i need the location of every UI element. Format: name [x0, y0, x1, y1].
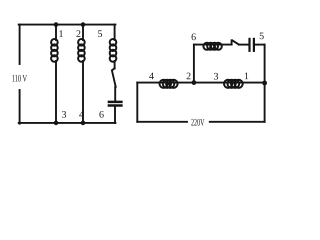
svg-text:4: 4 [79, 110, 84, 121]
svg-text:6: 6 [99, 110, 104, 121]
svg-text:3: 3 [61, 110, 66, 121]
wire top branch right segment [254, 44, 265, 46]
svg-text:2: 2 [76, 29, 81, 40]
svg-text:220V: 220V [191, 117, 205, 128]
wire bottom bus left segment (220V source lead) [137, 121, 187, 123]
node junction dot top of branch 1 [54, 22, 59, 27]
wire top bus of left circuit [19, 24, 116, 26]
wire bottom bus right segment (220V source lead) [210, 121, 265, 123]
inductor winding 4-2 (series coil left) [160, 80, 178, 88]
wire branch 2 lower lead [82, 61, 84, 123]
inductor winding 5-6 (right branch coil) [110, 39, 117, 62]
switch S1 (knife switch in branch 5) [112, 68, 116, 87]
svg-text:5: 5 [259, 31, 264, 42]
wire branch 1 upper lead [55, 25, 57, 40]
node junction dot top of branch 2 [81, 22, 86, 27]
wire branch 2 upper lead [82, 25, 84, 40]
node junction dot bottom of branch 1 [54, 121, 59, 126]
wire between switch and capacitor C1 [114, 87, 116, 101]
svg-text:3: 3 [213, 71, 218, 82]
svg-text:5: 5 [97, 29, 102, 40]
capacitor C2 (vertical plates) [250, 39, 254, 51]
svg-text:4: 4 [149, 71, 154, 82]
wire top branch left segment [194, 44, 232, 46]
wire between switch S2 and capacitor C2 [239, 44, 248, 46]
wire capacitor C1 lower lead [114, 106, 116, 123]
capacitor C1 (horizontal plates) [109, 102, 122, 106]
inductor winding 6-5 (top branch coil) [203, 43, 221, 50]
wire branch 5 upper lead [114, 25, 116, 40]
svg-text:1: 1 [244, 71, 249, 82]
wire branch 1 lower lead [55, 61, 57, 123]
inductor winding 1-3 (left branch coil) [51, 39, 58, 62]
node 2 junction dot (right circuit) [192, 80, 197, 85]
wire left side lower segment (110V source lead) [19, 90, 21, 124]
svg-text:6: 6 [191, 32, 196, 43]
wire between coil 5 and switch [114, 61, 116, 68]
wire bottom bus of left circuit [19, 122, 116, 124]
svg-text:1: 1 [58, 29, 63, 40]
inductor winding 3-1 (series coil right) [224, 80, 243, 88]
svg-text:2: 2 [186, 71, 191, 82]
wire right riser of right circuit [264, 45, 266, 122]
wire middle bus of right circuit [137, 82, 264, 84]
wire left riser of right circuit [136, 83, 138, 122]
svg-text:110 V: 110 V [12, 73, 28, 84]
inductor winding 2-4 (middle branch coil) [78, 39, 85, 62]
wire left side upper segment (110V source lead) [19, 25, 21, 64]
node junction dot bottom of branch 2 [81, 121, 86, 126]
node 1 junction dot (right circuit) [262, 81, 267, 86]
switch S2 (knife switch in top branch) [232, 40, 239, 44]
wire riser from node 2 up to branch 6 [193, 45, 195, 83]
